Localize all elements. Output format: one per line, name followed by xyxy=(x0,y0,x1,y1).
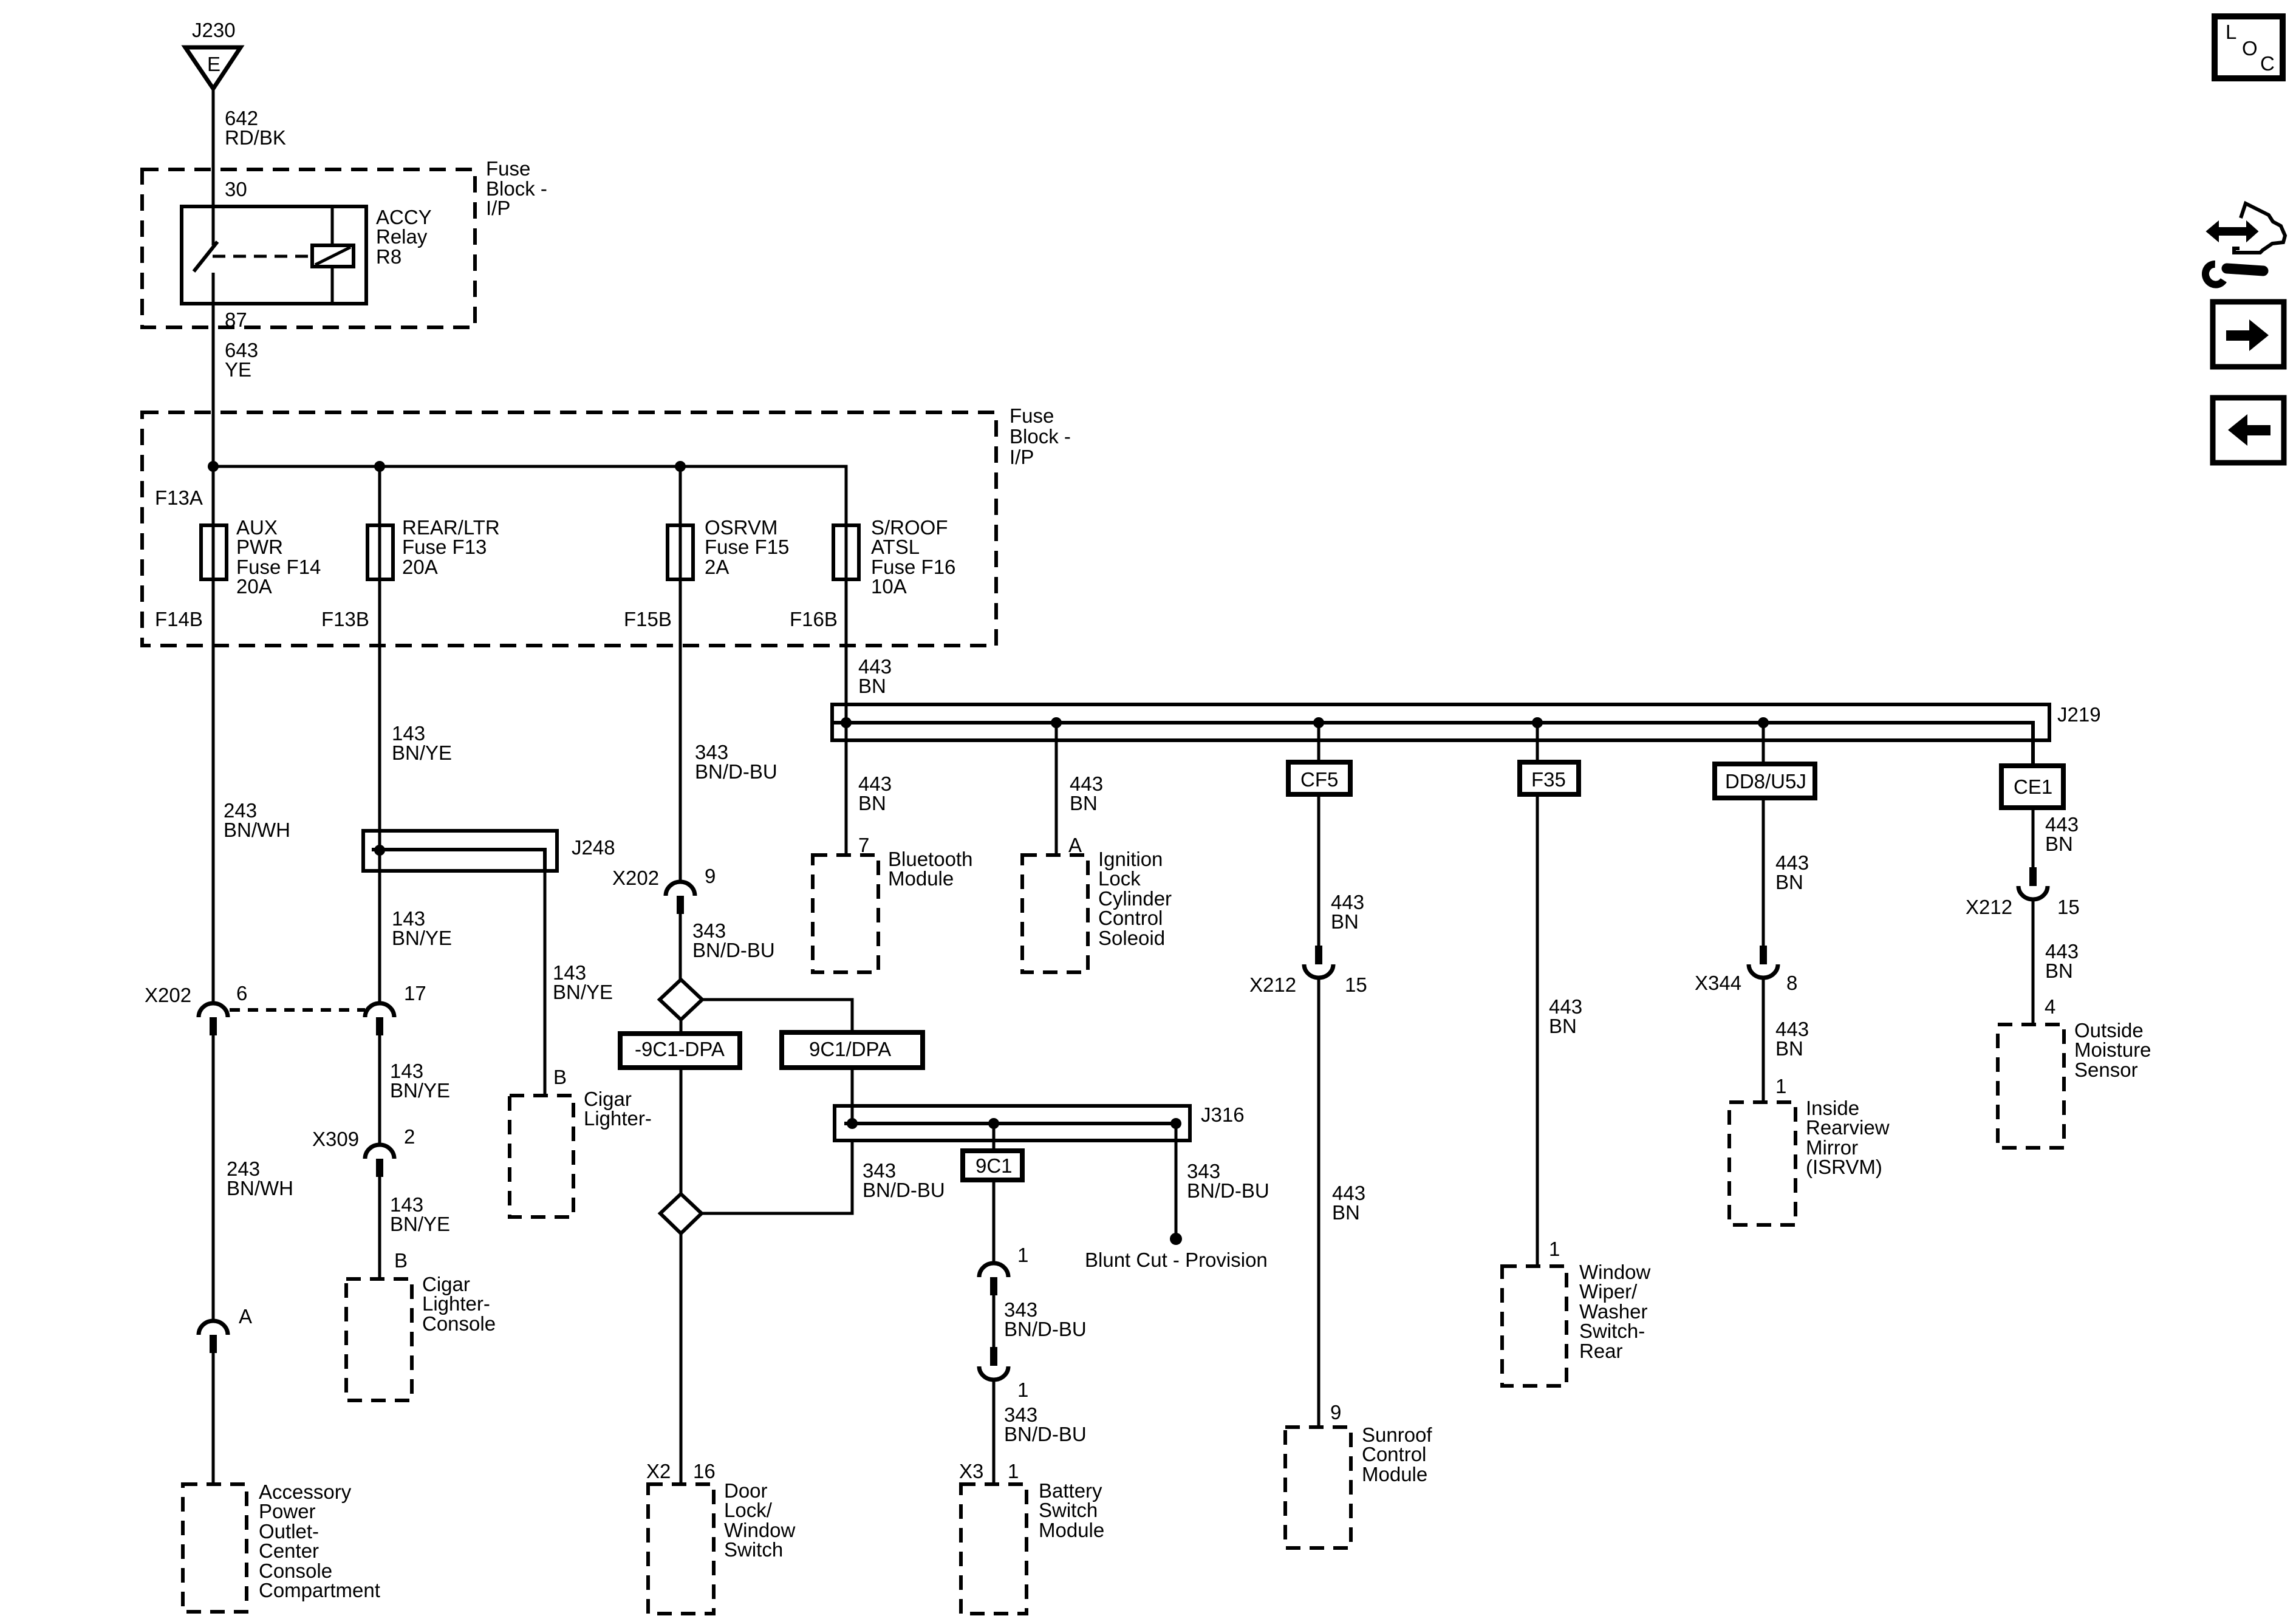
Bluetooth Module box (dashed) xyxy=(813,855,878,972)
splice pack J248 bar xyxy=(363,831,557,871)
svg-text:BN/D-BU: BN/D-BU xyxy=(1187,1179,1269,1202)
svg-text:CE1: CE1 xyxy=(2014,776,2052,798)
connector X202 pin 9 xyxy=(666,882,695,914)
label Window Wiper/Washer Switch-Rear xyxy=(1579,1261,1651,1362)
wire label 443 BN (Sunroof) xyxy=(1332,1182,1365,1224)
label X2 xyxy=(646,1460,671,1482)
svg-text:J230: J230 xyxy=(192,19,236,41)
pin 2 xyxy=(404,1125,415,1148)
svg-text:20A: 20A xyxy=(236,575,272,598)
Cigar Lighter-Console box (dashed) xyxy=(346,1279,412,1400)
svg-text:BN: BN xyxy=(2045,833,2073,855)
svg-text:DD8/U5J: DD8/U5J xyxy=(1725,770,1806,793)
svg-text:X2: X2 xyxy=(646,1460,671,1482)
label X202 (OSRVM wire) xyxy=(612,867,659,889)
svg-text:Module: Module xyxy=(888,867,954,890)
forward arrow icon box xyxy=(2213,302,2284,367)
wire J316 to 9C1 xyxy=(993,1123,996,1151)
wire label 443 BN (F35) xyxy=(1549,995,1582,1037)
pin 15 (CE1) xyxy=(2057,896,2080,918)
svg-text:Lock: Lock xyxy=(1098,867,1141,890)
wire label 443 BN (Bluetooth) xyxy=(858,772,892,814)
svg-text:CF5: CF5 xyxy=(1300,768,1338,791)
pin B (cigar lighter) xyxy=(553,1066,567,1088)
wire label 143 BN/YE (console) xyxy=(390,1193,450,1235)
pin 1 (battery upper) xyxy=(1017,1244,1028,1266)
wrench icon xyxy=(2202,263,2263,288)
svg-text:9C1/DPA: 9C1/DPA xyxy=(809,1038,891,1060)
svg-text:15: 15 xyxy=(2057,896,2080,918)
splice pack J219 bar xyxy=(832,704,2049,766)
connector X202 pin 17 xyxy=(365,1003,394,1035)
svg-text:Lighter-: Lighter- xyxy=(584,1107,652,1130)
wire 443 BN to ISRVM xyxy=(1762,978,1765,1102)
svg-text:(ISRVM): (ISRVM) xyxy=(1806,1156,1882,1178)
label X212 xyxy=(1249,973,1296,996)
svg-text:Switch-: Switch- xyxy=(1579,1320,1645,1342)
label Bluetooth Module xyxy=(888,848,972,890)
wire 143 BN/YE above J248 xyxy=(378,579,381,831)
label J219 xyxy=(2057,703,2101,726)
pin 9 xyxy=(1330,1401,1341,1423)
label Ignition Lock Cylinder Control Soleoid xyxy=(1098,848,1172,949)
svg-text:1: 1 xyxy=(1008,1460,1019,1482)
svg-text:1: 1 xyxy=(1775,1075,1786,1097)
wire 9C1 to connector xyxy=(993,1180,996,1263)
wire label 243 BN/WH xyxy=(224,799,290,841)
svg-text:Power: Power xyxy=(259,1500,316,1522)
svg-text:F15B: F15B xyxy=(624,608,672,630)
Ignition Lock Cylinder Control Soleoid box (dashed) xyxy=(1022,855,1088,972)
wire 343 BN/D-BU from fuse F15 xyxy=(679,579,682,882)
in-line connector battery upper pin 1 xyxy=(979,1263,1008,1295)
svg-text:F35: F35 xyxy=(1531,768,1566,791)
svg-text:R8: R8 xyxy=(376,245,401,268)
wire 643 YE xyxy=(212,304,215,525)
svg-text:F13B: F13B xyxy=(321,608,369,630)
connector pin A (accessory outlet) xyxy=(199,1321,228,1353)
svg-text:Blunt Cut - Provision: Blunt Cut - Provision xyxy=(1085,1249,1268,1271)
label Door Lock/Window Switch xyxy=(724,1479,796,1561)
junction dot F15 xyxy=(675,461,686,472)
terminal box 9C1 xyxy=(963,1151,1022,1180)
svg-text:BN/D-BU: BN/D-BU xyxy=(1004,1423,1087,1445)
svg-text:X202: X202 xyxy=(612,867,659,889)
wire 443 BN to Outside Moisture Sensor xyxy=(2032,899,2035,1024)
pin 1 (battery lower) xyxy=(1017,1379,1028,1401)
label Blunt Cut - Provision xyxy=(1085,1249,1268,1271)
label X309 xyxy=(312,1128,359,1150)
terminal box F35 xyxy=(1520,762,1579,794)
LOC icon box xyxy=(2215,16,2283,78)
svg-text:87: 87 xyxy=(225,309,247,331)
svg-text:BN/WH: BN/WH xyxy=(227,1177,293,1199)
connector X202 pin 6 xyxy=(199,1003,228,1035)
label Accessory Power Outlet-Center Console Compartment xyxy=(259,1481,380,1601)
svg-text:X212: X212 xyxy=(1966,896,2012,918)
wire 443 BN to Window Wiper Switch xyxy=(1536,794,1539,1266)
wire CF5 drop xyxy=(1317,723,1321,762)
Battery Switch Module box (dashed) xyxy=(961,1484,1027,1614)
blunt cut dot xyxy=(1170,1233,1182,1245)
bus wire inside fuse block xyxy=(213,466,846,525)
wire 443 BN below CE1 xyxy=(2032,808,2035,867)
label REAR/LTR Fuse F13 20A xyxy=(402,516,500,578)
svg-text:X309: X309 xyxy=(312,1128,359,1150)
svg-text:Fuse: Fuse xyxy=(486,157,530,180)
dashed connector link X202 xyxy=(230,1008,365,1012)
svg-text:2A: 2A xyxy=(705,556,729,578)
splice diamond upper xyxy=(660,980,702,1020)
pin B (console) xyxy=(394,1249,408,1272)
svg-text:Lock/: Lock/ xyxy=(724,1499,773,1521)
svg-text:J219: J219 xyxy=(2057,703,2101,726)
svg-text:Switch: Switch xyxy=(724,1538,783,1561)
svg-text:YE: YE xyxy=(225,358,251,381)
svg-text:20A: 20A xyxy=(402,556,438,578)
svg-text:1: 1 xyxy=(1017,1379,1028,1401)
data link double arrow icon xyxy=(2207,222,2258,241)
label Fuse Block - I/P (2) xyxy=(1010,404,1071,468)
svg-text:BN/D-BU: BN/D-BU xyxy=(692,939,775,961)
svg-text:BN/YE: BN/YE xyxy=(553,981,613,1003)
in-line connector battery lower pin 1 xyxy=(979,1347,1008,1380)
svg-text:B: B xyxy=(553,1066,567,1088)
svg-text:J316: J316 xyxy=(1201,1103,1245,1126)
wire 243 BN/WH lower xyxy=(212,1035,215,1322)
node F15B xyxy=(624,608,672,630)
svg-text:BN: BN xyxy=(1775,1037,1803,1060)
pin 6 xyxy=(236,982,247,1004)
connector X309 pin 2 xyxy=(365,1145,394,1177)
junction dot J219-3 xyxy=(1313,717,1324,728)
pin 30 xyxy=(225,178,247,200)
svg-text:17: 17 xyxy=(404,982,426,1004)
wire 143 BN/YE to cigar lighter console xyxy=(378,1177,381,1279)
terminal box -9C1-DPA xyxy=(620,1034,740,1068)
svg-text:BN/YE: BN/YE xyxy=(392,927,452,949)
svg-text:BN/YE: BN/YE xyxy=(390,1213,450,1235)
svg-text:F16B: F16B xyxy=(790,608,838,630)
ground triangle E (splice pack J230) xyxy=(185,47,241,89)
wire label 143 BN/YE (below J248) xyxy=(392,907,452,949)
Outside Moisture Sensor box (dashed) xyxy=(1998,1024,2064,1148)
svg-text:J248: J248 xyxy=(572,836,615,859)
wire label 443 BN (above J219) xyxy=(858,655,892,697)
svg-text:X3: X3 xyxy=(959,1460,983,1482)
label Sunroof Control Module xyxy=(1362,1423,1432,1485)
wire 143 BN/YE below J248 xyxy=(378,871,381,1003)
label J248 xyxy=(572,836,615,859)
pin 8 xyxy=(1786,972,1797,994)
junction dot J219-5 xyxy=(1758,717,1769,728)
pin 87 xyxy=(225,309,247,331)
wire diamond to 9C1/DPA xyxy=(702,1000,852,1032)
svg-text:Module: Module xyxy=(1362,1463,1427,1485)
label X344 xyxy=(1695,972,1741,994)
svg-text:BN: BN xyxy=(1331,910,1359,933)
svg-text:Fuse F15: Fuse F15 xyxy=(705,536,789,558)
wire F35 drop xyxy=(1536,723,1539,762)
node F14B xyxy=(155,608,203,630)
node J230 label xyxy=(192,19,236,41)
svg-text:BN/D-BU: BN/D-BU xyxy=(1004,1318,1087,1340)
svg-text:BN: BN xyxy=(1070,792,1098,814)
label Cigar Lighter-Console xyxy=(422,1273,496,1335)
Cigar Lighter- box (dashed) xyxy=(510,1096,573,1217)
Inside Rearview Mirror box (dashed) xyxy=(1729,1102,1795,1225)
in-line connector X344 pin 8 xyxy=(1749,946,1778,978)
relay coil xyxy=(312,206,354,304)
wire F15 drop to fuse xyxy=(679,466,682,525)
junction dot F14 xyxy=(208,461,219,472)
svg-text:16: 16 xyxy=(693,1460,716,1482)
svg-text:Center: Center xyxy=(259,1539,319,1562)
label J316 xyxy=(1201,1103,1245,1126)
Accessory Power Outlet box (dashed) xyxy=(183,1484,247,1612)
svg-text:Block -: Block - xyxy=(1010,425,1071,448)
svg-text:Sensor: Sensor xyxy=(2074,1059,2138,1081)
svg-text:BN/WH: BN/WH xyxy=(224,819,290,841)
svg-text:1: 1 xyxy=(1549,1238,1560,1260)
wire 143 BN/YE J248 branch xyxy=(544,871,547,1096)
svg-text:6: 6 xyxy=(236,982,247,1004)
label AUX PWR Fuse F14 20A xyxy=(236,516,321,598)
fuse F15 xyxy=(668,525,693,579)
relay R8 box xyxy=(182,206,366,304)
svg-text:9C1: 9C1 xyxy=(975,1154,1013,1177)
fuse F14 xyxy=(201,525,227,579)
svg-text:A: A xyxy=(239,1305,252,1328)
Window Wiper/Washer Switch-Rear box (dashed) xyxy=(1502,1266,1567,1386)
junction dot J219-2 xyxy=(1051,717,1062,728)
junction dot F13 xyxy=(374,461,385,472)
relay switch contact xyxy=(194,206,217,304)
wire label 143 BN/YE (branch) xyxy=(553,961,613,1003)
label ACCY Relay R8 xyxy=(376,206,432,268)
svg-text:Module: Module xyxy=(1039,1519,1104,1541)
node F13A xyxy=(155,486,203,509)
fuse F13 xyxy=(367,525,393,579)
pin A xyxy=(1068,834,1082,856)
wire label 343 BN/D-BU (mid) xyxy=(692,919,775,961)
terminal box CF5 xyxy=(1288,762,1350,794)
wire DD8 drop xyxy=(1762,723,1765,764)
svg-text:BN: BN xyxy=(858,675,886,697)
junction dot J316-left xyxy=(847,1118,858,1129)
wire label 443 BN (ISRVM) xyxy=(1775,1018,1809,1060)
svg-text:L: L xyxy=(2226,21,2236,43)
svg-text:X212: X212 xyxy=(1249,973,1296,996)
svg-text:BN: BN xyxy=(1775,871,1803,893)
wire F13 drop to fuse xyxy=(378,466,381,525)
svg-text:2: 2 xyxy=(404,1125,415,1148)
wire label 443 BN (DD8) xyxy=(1775,851,1809,893)
svg-text:BN: BN xyxy=(1332,1201,1360,1224)
wire J316 to blunt cut xyxy=(1175,1123,1178,1239)
wire 443 BN to Bluetooth Module xyxy=(845,723,848,855)
wire 443 BN below DD8 xyxy=(1762,798,1765,946)
svg-text:X344: X344 xyxy=(1695,972,1741,994)
wire 642 RD/BK xyxy=(212,89,215,206)
svg-text:BN/D-BU: BN/D-BU xyxy=(695,760,777,783)
wire label 143 BN/YE (above J248) xyxy=(392,722,452,764)
terminal box CE1 xyxy=(2001,766,2063,808)
svg-text:X202: X202 xyxy=(145,984,191,1006)
in-line connector X212 pin 15 (CE1 wire) xyxy=(2018,867,2048,899)
label Outside Moisture Sensor xyxy=(2074,1019,2151,1081)
svg-text:I/P: I/P xyxy=(1010,446,1034,468)
wire 343 BN/D-BU to door lock switch xyxy=(680,1233,683,1484)
svg-text:C: C xyxy=(2260,52,2275,75)
wire 143 BN/YE to X309 xyxy=(378,1035,381,1145)
wire 343 BN/D-BU to diamond xyxy=(679,914,682,980)
svg-text:BN: BN xyxy=(2045,960,2073,982)
wire 443 BN from fuse F16 xyxy=(845,579,848,723)
svg-text:RD/BK: RD/BK xyxy=(225,126,286,149)
wire 343 BN/D-BU to battery switch module xyxy=(993,1380,996,1484)
fuse F16 xyxy=(833,525,859,579)
pin 4 xyxy=(2045,995,2055,1018)
svg-text:BN: BN xyxy=(858,792,886,814)
svg-text:I/P: I/P xyxy=(486,197,510,219)
svg-text:BN/D-BU: BN/D-BU xyxy=(863,1179,945,1201)
wire label 343 BN/D-BU (battery low) xyxy=(1004,1403,1087,1445)
svg-text:B: B xyxy=(394,1249,408,1272)
svg-text:9: 9 xyxy=(1330,1401,1341,1423)
svg-text:A: A xyxy=(1068,834,1082,856)
svg-text:Control: Control xyxy=(1098,907,1163,929)
wire 9C1/DPA to J316 xyxy=(851,1068,854,1123)
svg-text:E: E xyxy=(207,53,220,75)
pin 17 xyxy=(404,982,426,1004)
wire 443 BN to Ignition Lock xyxy=(1055,723,1058,855)
svg-text:Lighter-: Lighter- xyxy=(422,1292,490,1315)
wire J248 through xyxy=(378,831,381,871)
Door Lock/Window Switch box (dashed) xyxy=(648,1484,714,1614)
svg-text:30: 30 xyxy=(225,178,247,200)
svg-text:F14B: F14B xyxy=(155,608,203,630)
node F13B xyxy=(321,608,369,630)
svg-text:10A: 10A xyxy=(871,575,907,598)
pin 1 (ISRVM) xyxy=(1775,1075,1786,1097)
relay actuation dashed line xyxy=(213,255,312,258)
wire label 243 BN/WH (lower) xyxy=(227,1157,293,1199)
svg-text:Switch: Switch xyxy=(1039,1499,1098,1521)
terminal box 9C1/DPA xyxy=(782,1032,923,1068)
Sunroof Control Module box (dashed) xyxy=(1285,1427,1351,1548)
pin 16 xyxy=(693,1460,716,1482)
wire label 443 BN (Ignition) xyxy=(1070,772,1103,814)
fuse block I/P box 1 (dashed) xyxy=(142,169,475,327)
label Cigar Lighter- xyxy=(584,1088,652,1130)
svg-text:-9C1-DPA: -9C1-DPA xyxy=(635,1038,725,1060)
car silhouette icon xyxy=(2234,203,2285,253)
svg-text:F13A: F13A xyxy=(155,486,203,509)
svg-text:O: O xyxy=(2242,37,2258,60)
pin A (accessory) xyxy=(239,1305,252,1328)
label Fuse Block - I/P (1) xyxy=(486,157,547,219)
wire label 343 BN/D-BU (battery mid) xyxy=(1004,1298,1087,1340)
junction dot J248 xyxy=(374,845,385,856)
wire 443 BN to Sunroof Control Module xyxy=(1317,978,1321,1427)
in-line connector X212 pin 15 (CF5 wire) xyxy=(1304,946,1333,978)
wire label 343 BN/D-BU (upper) xyxy=(695,741,777,783)
svg-text:PWR: PWR xyxy=(236,536,283,558)
svg-text:Console: Console xyxy=(422,1312,496,1335)
svg-text:7: 7 xyxy=(858,834,869,856)
back arrow icon box xyxy=(2213,398,2284,463)
terminal box DD8/U5J xyxy=(1715,764,1815,798)
label X202 xyxy=(145,984,191,1006)
svg-text:BN/YE: BN/YE xyxy=(392,742,452,764)
wire J316 to diamond lower xyxy=(702,1140,852,1213)
wire 243 BN/WH upper xyxy=(212,579,215,1003)
svg-text:Fuse: Fuse xyxy=(1010,404,1054,427)
svg-text:9: 9 xyxy=(705,865,716,887)
svg-text:BN/YE: BN/YE xyxy=(390,1079,450,1102)
junction dot J316-mid xyxy=(988,1118,999,1129)
svg-text:Rear: Rear xyxy=(1579,1340,1623,1362)
svg-text:Moisture: Moisture xyxy=(2074,1038,2151,1061)
pin 15 xyxy=(1345,973,1367,996)
fuse block I/P box 2 (dashed) xyxy=(142,412,996,646)
svg-text:BN: BN xyxy=(1549,1015,1577,1037)
wire label 343 BN/D-BU (blunt) xyxy=(1187,1160,1269,1202)
wire label 443 BN (CE1) xyxy=(2045,813,2079,855)
junction dot J219-4 xyxy=(1532,717,1543,728)
pin 1 (X3) xyxy=(1008,1460,1019,1482)
wire label 642 RD/BK xyxy=(225,107,286,149)
wire label 143 BN/YE (X202-X309) xyxy=(390,1060,450,1102)
svg-text:Rearview: Rearview xyxy=(1806,1116,1890,1139)
junction dot J219-1 xyxy=(841,717,852,728)
wire to accessory outlet xyxy=(212,1353,215,1484)
wire label 443 BN (OMS) xyxy=(2045,940,2079,982)
label X212 (CE1) xyxy=(1966,896,2012,918)
pin 1 (wiper) xyxy=(1549,1238,1560,1260)
junction dot J316-right xyxy=(1170,1118,1181,1129)
svg-text:Soleoid: Soleoid xyxy=(1098,927,1165,949)
svg-text:15: 15 xyxy=(1345,973,1367,996)
wire label 443 BN (CF5) xyxy=(1331,891,1364,933)
wire label 343 BN/D-BU (J316 left) xyxy=(863,1159,945,1201)
label Inside Rearview Mirror (ISRVM) xyxy=(1806,1097,1890,1178)
svg-text:4: 4 xyxy=(2045,995,2055,1018)
svg-text:Fuse F13: Fuse F13 xyxy=(402,536,487,558)
svg-text:Control: Control xyxy=(1362,1443,1426,1465)
pin 7 xyxy=(858,834,869,856)
label S/ROOF ATSL Fuse F16 10A xyxy=(871,516,955,598)
svg-text:Compartment: Compartment xyxy=(259,1579,380,1601)
svg-text:8: 8 xyxy=(1786,972,1797,994)
svg-text:Wiper/: Wiper/ xyxy=(1579,1280,1638,1303)
label X3 xyxy=(959,1460,983,1482)
node F16B xyxy=(790,608,838,630)
wire 443 BN below CF5 xyxy=(1317,794,1321,946)
svg-text:1: 1 xyxy=(1017,1244,1028,1266)
label Battery Switch Module xyxy=(1039,1479,1104,1541)
splice pack J316 bar xyxy=(835,1106,1190,1140)
svg-text:ATSL: ATSL xyxy=(871,536,920,558)
pin 9 xyxy=(705,865,716,887)
svg-text:Relay: Relay xyxy=(376,225,428,248)
label OSRVM Fuse F15 2A xyxy=(705,516,789,578)
wire 343 BN/D-BU between connectors xyxy=(993,1295,996,1347)
splice diamond lower xyxy=(660,1194,702,1233)
wire label 643 YE xyxy=(225,339,258,381)
wire through -9C1-DPA xyxy=(680,1020,683,1196)
